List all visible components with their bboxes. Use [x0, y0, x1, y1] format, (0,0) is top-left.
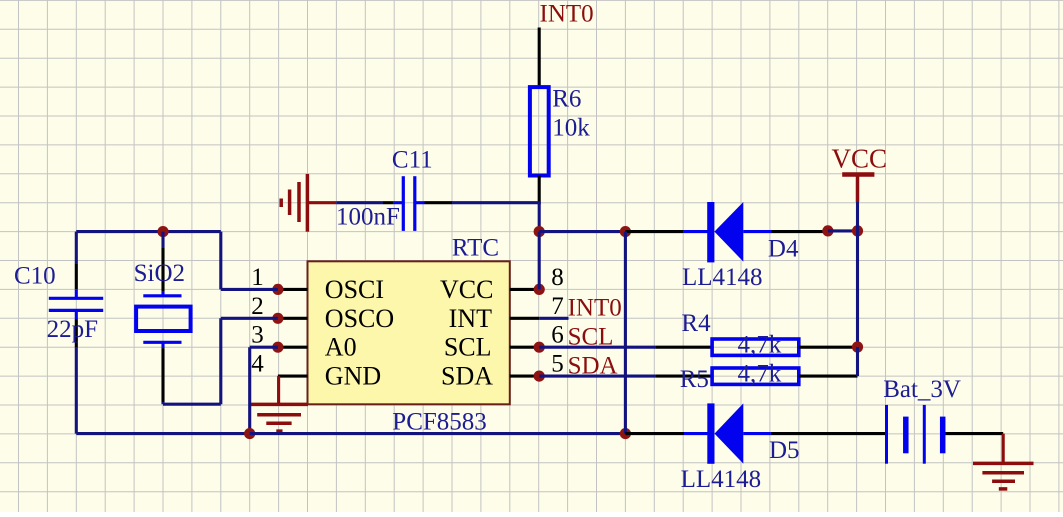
- wire junction to VCC stem: [828, 229, 858, 232]
- resistor R6: [530, 87, 549, 175]
- crystal SiO2: [136, 232, 191, 402]
- svg-text:GND: GND: [325, 362, 381, 391]
- wire R6 lead to bus junction: [538, 203, 541, 233]
- capacitor C11: [383, 176, 452, 231]
- wire SCL to R4: [539, 346, 655, 349]
- pin 4 line: [278, 375, 308, 378]
- svg-text:8: 8: [551, 264, 564, 291]
- svg-text:VCC: VCC: [440, 275, 493, 304]
- svg-text:SCL: SCL: [444, 333, 492, 362]
- svg-text:OSCO: OSCO: [325, 304, 394, 333]
- node junction D4/VCC: [822, 225, 833, 236]
- wire bus to D5 anode: [625, 432, 684, 435]
- wire R4 to VCC branch: [799, 346, 858, 349]
- pin 5 line: [510, 375, 539, 378]
- pin 1 line: [278, 288, 308, 291]
- wire battery to ground: [946, 432, 1004, 435]
- wire A0 to bottom bus: [250, 346, 278, 349]
- battery Bat_3V: [887, 405, 943, 464]
- wire R6 bottom lead: [538, 176, 541, 203]
- node pin5 junction: [534, 371, 545, 382]
- svg-text:A0: A0: [325, 333, 357, 362]
- wire C11 to INT0 vertical: [452, 201, 541, 204]
- wire VCC node down to R4: [856, 231, 859, 347]
- node pin3 junction: [272, 342, 283, 353]
- svg-text:R4: R4: [681, 310, 711, 337]
- wire top-left bus: [76, 230, 221, 233]
- ground (chip GND pin): [251, 376, 308, 431]
- svg-text:OSCI: OSCI: [325, 275, 384, 304]
- svg-text:5: 5: [551, 351, 564, 378]
- wire bus corner down to pin1: [219, 232, 222, 290]
- node pin2 junction: [272, 313, 283, 324]
- svg-text:22pF: 22pF: [47, 316, 98, 343]
- power VCC: [832, 144, 888, 202]
- node junction A0/bus: [244, 428, 255, 439]
- wire D4 to VCC node: [772, 230, 828, 233]
- pin 7 line + INT stub: [510, 317, 539, 320]
- svg-text:RTC: RTC: [452, 235, 499, 262]
- node junction R6/C11/VCC-pin bus: [534, 226, 545, 237]
- svg-text:LL4148: LL4148: [682, 264, 763, 291]
- svg-text:D5: D5: [769, 437, 800, 464]
- svg-text:LL4148: LL4148: [681, 466, 762, 493]
- svg-text:SiO2: SiO2: [134, 260, 185, 287]
- node junction crystal top: [157, 226, 168, 237]
- wire ground to C11: [336, 201, 383, 204]
- wire SDA to R5: [539, 375, 655, 378]
- node pin8 junction: [534, 284, 545, 295]
- wire D5 to battery: [771, 432, 886, 435]
- wire INT0 label to R6: [538, 28, 541, 89]
- capacitor C10: [49, 232, 103, 347]
- wire bottom bus left: [76, 432, 249, 435]
- pin 6 line: [510, 346, 539, 349]
- pin 3 line: [278, 346, 308, 349]
- svg-text:Bat_3V: Bat_3V: [883, 376, 961, 403]
- wire to pin 1 (OSCI): [221, 288, 278, 291]
- ground (C11, pointing left): [281, 174, 336, 232]
- svg-text:1: 1: [251, 264, 264, 291]
- svg-text:C11: C11: [392, 147, 433, 174]
- pin 8 line: [510, 288, 539, 291]
- node junction VCC stem: [852, 225, 863, 236]
- diode D5 LL4148: [684, 403, 771, 463]
- ground (battery): [973, 434, 1034, 489]
- resistor R4: [712, 339, 799, 355]
- svg-text:C10: C10: [14, 262, 56, 289]
- svg-text:R5: R5: [680, 366, 709, 393]
- wire VCC stem lower: [856, 202, 859, 231]
- svg-text:6: 6: [551, 322, 564, 349]
- svg-text:100nF: 100nF: [336, 204, 400, 231]
- wire D4-D5 vertical: [624, 232, 627, 434]
- svg-text:INT0: INT0: [540, 1, 594, 28]
- resistor R5: [712, 368, 799, 384]
- svg-text:R6: R6: [552, 85, 581, 112]
- wire R5 right to VCC branch: [799, 375, 858, 378]
- svg-text:2: 2: [251, 293, 264, 320]
- node junction D4 branch: [620, 226, 631, 237]
- svg-text:D4: D4: [768, 235, 799, 262]
- wire crystal bottom to OSCO: [161, 402, 164, 404]
- op-amp U1 RTC PCF8583 body: [308, 261, 510, 404]
- svg-text:4,7k: 4,7k: [738, 332, 782, 359]
- svg-text:SDA: SDA: [441, 362, 493, 391]
- pin 2 line: [278, 317, 308, 320]
- wire C10 bottom to bus: [75, 347, 78, 434]
- svg-text:3: 3: [251, 322, 264, 349]
- svg-text:7: 7: [551, 293, 564, 320]
- svg-text:VCC: VCC: [832, 144, 888, 174]
- node pin6 junction: [534, 342, 545, 353]
- wire to D4 anode: [625, 230, 683, 233]
- diode D4 LL4148: [683, 202, 772, 262]
- node junction R4/VCC branch: [852, 341, 863, 352]
- node pin1 junction: [272, 284, 283, 295]
- svg-text:4,7k: 4,7k: [738, 361, 782, 388]
- wire bottom bus middle: [250, 432, 626, 435]
- svg-text:INT0: INT0: [568, 294, 622, 321]
- node junction D5 branch: [620, 428, 631, 439]
- svg-text:PCF8583: PCF8583: [392, 409, 486, 436]
- wire bus to D4 branch: [539, 230, 625, 233]
- svg-text:INT: INT: [449, 304, 492, 333]
- svg-text:4: 4: [251, 351, 264, 378]
- svg-text:10k: 10k: [552, 115, 590, 142]
- wire pin8 to top bus: [538, 232, 541, 290]
